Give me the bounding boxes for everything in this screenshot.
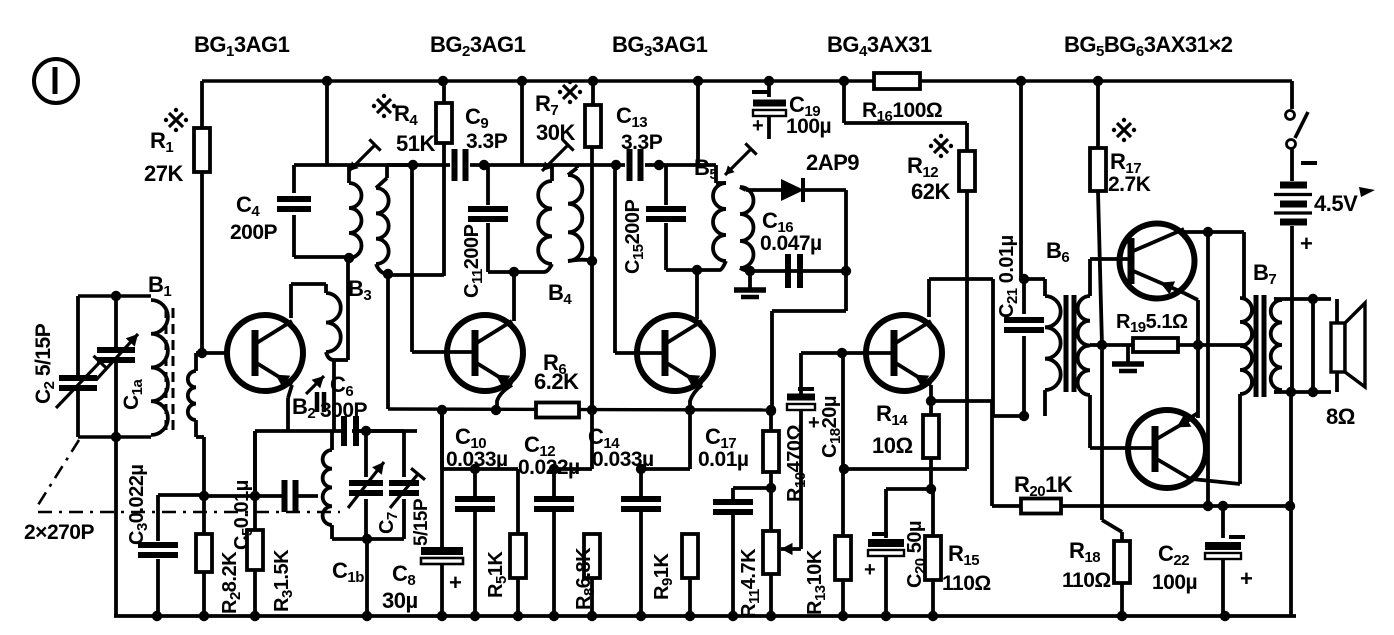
svg-text:BG5BG63AX31×2: BG5BG63AX31×2 — [1064, 32, 1233, 60]
svg-text:R28.2K: R28.2K — [219, 551, 244, 614]
svg-text:C30.022µ: C30.022µ — [126, 465, 151, 545]
svg-text:110Ω: 110Ω — [1062, 569, 1111, 592]
svg-text:2.7K: 2.7K — [1108, 173, 1151, 196]
svg-text:+: + — [1240, 566, 1252, 591]
svg-text:3.3P: 3.3P — [466, 130, 508, 153]
svg-text:200P: 200P — [230, 221, 278, 244]
svg-text:6.2K: 6.2K — [534, 369, 579, 394]
svg-text:R114.7K: R114.7K — [738, 548, 763, 618]
svg-text:C11200P: C11200P — [461, 224, 486, 298]
svg-text:300P: 300P — [320, 399, 368, 422]
svg-text:2×270P: 2×270P — [24, 521, 94, 544]
svg-text:3.3P: 3.3P — [621, 131, 663, 154]
svg-text:0.01µ: 0.01µ — [698, 448, 748, 471]
svg-text:C2 5/15P: C2 5/15P — [32, 323, 58, 404]
svg-text:5/15P: 5/15P — [411, 498, 432, 546]
svg-text:BG13AG1: BG13AG1 — [194, 32, 290, 60]
svg-text:+: + — [864, 559, 875, 581]
svg-text:4.5V: 4.5V — [1314, 191, 1358, 216]
svg-text:+: + — [1300, 231, 1312, 256]
svg-text:110Ω: 110Ω — [942, 572, 991, 595]
svg-text:8Ω: 8Ω — [1326, 404, 1355, 429]
svg-text:+: + — [808, 412, 819, 434]
svg-text:C15200P: C15200P — [622, 199, 647, 274]
svg-text:62K: 62K — [911, 179, 950, 204]
svg-text:BG33AG1: BG33AG1 — [612, 32, 708, 60]
svg-text:0.047µ: 0.047µ — [760, 232, 822, 255]
svg-text:R10470Ω: R10470Ω — [784, 424, 809, 502]
svg-text:27K: 27K — [144, 161, 183, 186]
svg-text:R86.8K: R86.8K — [573, 547, 598, 610]
svg-text:R16100Ω: R16100Ω — [862, 99, 942, 125]
svg-text:C21 0.01µ: C21 0.01µ — [996, 235, 1021, 318]
svg-text:0.033µ: 0.033µ — [592, 448, 654, 471]
svg-text:BG23AG1: BG23AG1 — [430, 32, 526, 60]
svg-text:30K: 30K — [536, 120, 575, 145]
svg-text:0.022µ: 0.022µ — [518, 456, 580, 479]
svg-text:0.033µ: 0.033µ — [446, 448, 508, 471]
svg-text:51K: 51K — [396, 131, 435, 156]
svg-text:2AP9: 2AP9 — [806, 150, 859, 175]
svg-text:BG43AX31: BG43AX31 — [827, 32, 932, 60]
svg-text:R1310K: R1310K — [804, 549, 829, 615]
svg-text:R31.5K: R31.5K — [271, 549, 296, 612]
svg-text:100µ: 100µ — [786, 115, 831, 138]
svg-text:R91K: R91K — [651, 553, 676, 600]
svg-text:C20 50µ: C20 50µ — [904, 521, 929, 588]
svg-text:10Ω: 10Ω — [872, 433, 913, 458]
svg-text:+: + — [752, 115, 763, 137]
svg-text:R51K: R51K — [485, 551, 510, 598]
svg-text:30µ: 30µ — [382, 588, 418, 613]
svg-text:100µ: 100µ — [1152, 571, 1197, 594]
svg-text:+: + — [449, 570, 461, 595]
svg-text:C50.01µ: C50.01µ — [231, 480, 256, 550]
svg-text:R195.1Ω: R195.1Ω — [1116, 311, 1188, 336]
svg-text:C1820µ: C1820µ — [819, 396, 844, 458]
